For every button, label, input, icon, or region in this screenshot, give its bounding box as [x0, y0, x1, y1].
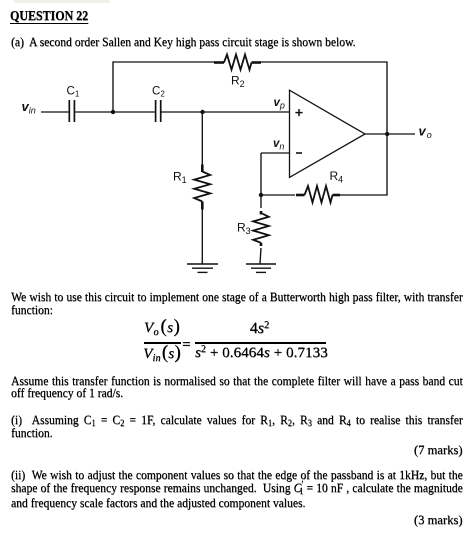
svg-text:C1: C1 — [67, 86, 80, 99]
wire: Vin to C1 — [41, 111, 68, 113]
svg-text:vo: vo — [419, 124, 432, 141]
wire: vn down to node C — [260, 153, 262, 196]
svg-text:vp: vp — [274, 97, 285, 111]
wire: R4 to right rail — [339, 194, 388, 196]
wire: node C to R4 — [261, 194, 295, 196]
left fraction bar — [144, 342, 181, 343]
resistor R2 — [214, 55, 261, 70]
node C junction dot — [259, 193, 263, 197]
(7 marks) — [414, 444, 463, 458]
wire: node B down to R1 — [201, 112, 203, 165]
left fraction denominator — [141, 343, 183, 363]
wire: C1 to C2 — [75, 111, 155, 113]
node A junction dot — [111, 110, 115, 114]
paragraph (ii) — [11, 469, 463, 483]
wire: R3 to ground — [260, 248, 261, 264]
capacitor C1 — [69, 100, 74, 122]
paragraph: We wish to use — [11, 291, 463, 305]
svg-text:vn: vn — [273, 138, 284, 152]
wire: vn input — [261, 152, 290, 154]
transfer function formula: left fraction numerator — [141, 317, 183, 337]
resistor R1 — [194, 165, 210, 210]
svg-text:R2: R2 — [231, 74, 245, 90]
wire: R1 to ground — [201, 210, 203, 265]
wire: output — [365, 133, 415, 135]
wire: node A up to top rail — [112, 62, 114, 112]
paragraph: Assume this transfer function — [11, 375, 463, 389]
op-amp - sign — [296, 152, 302, 154]
ground (R1) — [187, 264, 218, 272]
faint cropped text remnant at very top — [14, 0, 110, 3]
wire: node C down to R3 — [260, 195, 262, 208]
wire: right rail down — [386, 62, 388, 196]
right fraction numerator — [194, 319, 325, 338]
right fraction bar — [195, 342, 326, 343]
wire: top rail left segment — [112, 61, 215, 63]
op-amp + sign — [295, 109, 302, 116]
wire: C2 to op-amp + input — [162, 111, 290, 113]
equals sign — [182, 335, 191, 354]
svg-text:R3: R3 — [237, 221, 251, 237]
right fraction denominator — [195, 343, 326, 362]
op-amp U1 triangle — [290, 90, 366, 177]
heading QUESTION 22 — [10, 9, 88, 23]
line (a) — [11, 36, 356, 50]
svg-text:R1: R1 — [173, 170, 187, 186]
svg-text:vin: vin — [22, 99, 36, 116]
svg-text:R4: R4 — [330, 169, 344, 185]
ground (R3) — [246, 264, 276, 272]
paragraph (i) — [11, 414, 463, 428]
wire: top rail right segment — [261, 61, 388, 63]
capacitor C2 — [156, 100, 161, 122]
node B junction dot — [200, 110, 204, 114]
(3 marks) — [414, 514, 463, 528]
resistor R3 — [253, 211, 269, 246]
resistor R4 — [296, 186, 340, 203]
output node dot — [385, 132, 389, 136]
svg-text:C2: C2 — [152, 86, 165, 99]
